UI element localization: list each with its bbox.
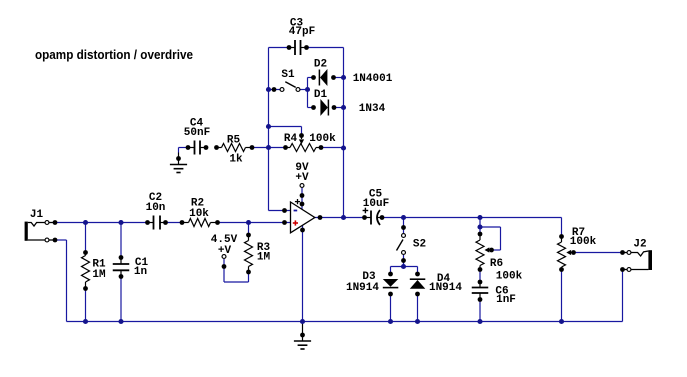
svg-text:100k: 100k	[496, 271, 523, 283]
svg-text:50nF: 50nF	[184, 127, 210, 139]
svg-text:1N4001: 1N4001	[353, 73, 393, 85]
svg-text:R5: R5	[227, 134, 241, 146]
svg-text:1N34: 1N34	[359, 103, 386, 115]
svg-text:J2: J2	[633, 238, 646, 250]
svg-text:10k: 10k	[189, 208, 209, 220]
svg-text:opamp distortion / overdrive: opamp distortion / overdrive	[35, 48, 193, 62]
svg-text:1N914: 1N914	[346, 282, 379, 294]
svg-text:+V: +V	[218, 245, 232, 257]
svg-text:S1: S1	[281, 69, 295, 81]
svg-text:S2: S2	[413, 238, 426, 250]
svg-text:J1: J1	[30, 209, 44, 221]
svg-text:1nF: 1nF	[496, 294, 516, 306]
svg-text:100k: 100k	[309, 133, 336, 145]
svg-text:1M: 1M	[257, 252, 271, 264]
svg-text:D2: D2	[314, 59, 327, 71]
svg-text:1M: 1M	[92, 269, 106, 281]
svg-text:47pF: 47pF	[289, 26, 315, 38]
svg-text:1k: 1k	[229, 154, 243, 166]
svg-text:10uF: 10uF	[363, 198, 389, 210]
svg-text:D1: D1	[314, 89, 328, 101]
svg-text:10n: 10n	[146, 202, 166, 214]
svg-text:100k: 100k	[570, 236, 597, 248]
svg-text:R4: R4	[284, 133, 298, 145]
svg-text:1n: 1n	[134, 266, 147, 278]
svg-text:1N914: 1N914	[429, 282, 462, 294]
svg-text:R6: R6	[490, 258, 503, 270]
svg-text:+V: +V	[295, 172, 309, 184]
